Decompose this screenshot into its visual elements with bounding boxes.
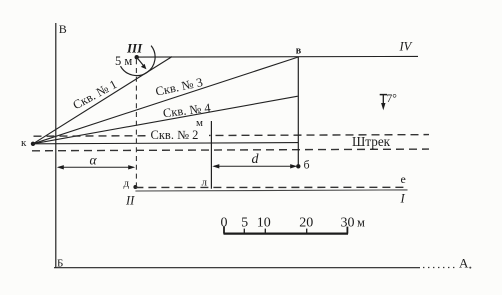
baseline Б-А (horizontal bottom) <box>54 267 420 269</box>
scale bar <box>224 233 349 235</box>
label Скв. № 2 (white backed) <box>149 128 209 140</box>
drift upper dashed boundary <box>34 135 430 137</box>
svg-text:м: м <box>357 216 365 230</box>
svg-text:к: к <box>21 137 27 149</box>
radius arrow <box>137 57 144 65</box>
borehole line Скв №2 <box>33 143 298 144</box>
dashed line д-е <box>135 186 407 188</box>
svg-text:Скв. № 2: Скв. № 2 <box>151 128 199 142</box>
svg-text:д: д <box>124 178 130 190</box>
5 m radius arc <box>121 46 156 76</box>
svg-text:е: е <box>401 172 406 186</box>
node д <box>133 185 137 189</box>
borehole line Скв №1 <box>33 57 172 144</box>
svg-text:0: 0 <box>221 216 228 231</box>
svg-text:А: А <box>459 256 469 271</box>
svg-text:б: б <box>304 158 310 172</box>
section line л-м (vertical) <box>210 121 212 189</box>
borehole line Скв №4 <box>33 96 298 144</box>
dip symbol 7° <box>380 94 387 96</box>
svg-text:30: 30 <box>341 216 355 231</box>
label Штрек (white backed) <box>350 136 393 148</box>
svg-text:α: α <box>90 153 98 168</box>
borehole line Скв №3 <box>33 57 298 144</box>
dimension arrow α <box>59 166 134 168</box>
svg-text:Штрек: Штрек <box>352 134 391 149</box>
svg-text:I: I <box>400 192 406 206</box>
node к (drill station point) <box>31 142 35 146</box>
svg-text:5 м: 5 м <box>115 54 132 68</box>
line IV (upper horizon) <box>137 55 418 58</box>
svg-text:м: м <box>196 117 203 129</box>
svg-text:7°: 7° <box>387 93 398 105</box>
svg-text:d: d <box>252 152 260 167</box>
svg-text:IV: IV <box>399 40 413 54</box>
svg-text:в: в <box>296 45 302 56</box>
solid line д-I <box>135 190 407 191</box>
svg-text:II: II <box>125 194 135 208</box>
svg-text:В: В <box>59 22 67 36</box>
svg-text:20: 20 <box>299 216 313 231</box>
dotted continuation to А <box>423 267 458 269</box>
svg-text:л: л <box>202 177 208 189</box>
node at III/IV intersection <box>135 55 139 59</box>
dimension arrow d <box>214 165 296 167</box>
section line в-б (vertical) <box>297 57 299 166</box>
node б <box>296 164 300 168</box>
dashed section line III-II (vertical) <box>135 59 137 185</box>
svg-text:5: 5 <box>241 216 248 231</box>
axis line В-Б (vertical) <box>55 23 57 268</box>
drift lower dashed boundary <box>32 149 429 151</box>
svg-text:10: 10 <box>257 216 271 231</box>
